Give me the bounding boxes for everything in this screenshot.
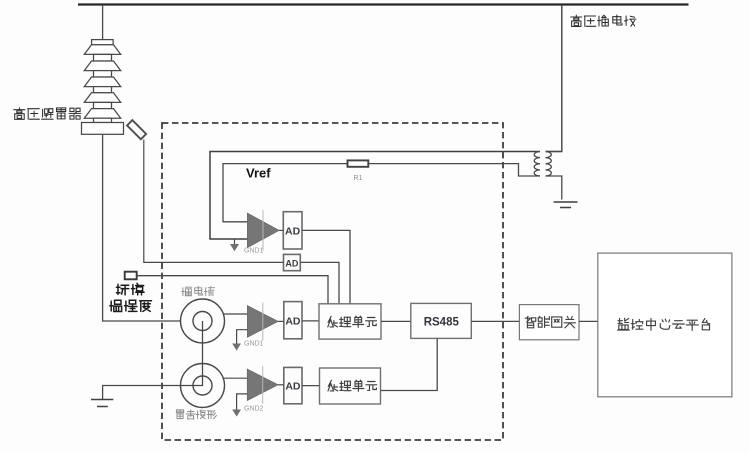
wire: op3 out to AD4	[278, 384, 284, 386]
label 高压输电线	[571, 15, 636, 27]
resistor R1	[348, 160, 369, 166]
lightning arrester ZnO stack	[82, 40, 124, 135]
processing unit 2 box	[320, 368, 381, 404]
AD converter box 1	[283, 212, 302, 249]
wire: arrester lead down through CT1	[103, 134, 181, 321]
label 雷击波形	[176, 410, 216, 420]
ground GND1 arrow (op-amp U2)	[237, 330, 248, 344]
label 处理单元 1	[328, 316, 377, 327]
wire: AD4 to processing unit 2	[302, 385, 320, 387]
wire: AD3 to processing unit 1	[302, 320, 319, 322]
label 监控中心云平台	[618, 318, 710, 330]
svg-text:Vref: Vref	[246, 166, 271, 181]
transformer T1	[534, 152, 562, 200]
wire: primary conductor through CT1/CT2 to ground	[103, 321, 203, 399]
wire: sensor to processing unit	[137, 276, 328, 304]
label 环境	[116, 283, 144, 295]
wire: CT1 to op-amp U2	[223, 313, 247, 315]
svg-text:AD: AD	[285, 381, 301, 393]
monitoring-center cloud platform box	[598, 253, 732, 397]
wire: drop from line to arrester	[102, 5, 104, 40]
label 漏电流	[182, 286, 215, 296]
label 温湿度	[110, 300, 152, 311]
wire: Vref outer loop (top rail to transformer primary top)	[210, 152, 540, 240]
CT2 lightning-waveform transformer	[181, 364, 225, 408]
wire: tilted sensor to AD2	[144, 140, 284, 263]
wire: processing unit 2 up into RS485	[381, 338, 438, 390]
op-amp U2	[247, 306, 278, 338]
env temp/humidity sensor box	[125, 272, 137, 280]
label 高压避雷器	[14, 108, 81, 120]
svg-text:GND1: GND1	[244, 248, 264, 255]
svg-text:AD: AD	[285, 226, 301, 238]
wire: processing unit 1 to RS485	[381, 320, 411, 322]
ground GND2 arrow (op-amp U3)	[237, 394, 248, 410]
wire: op2 out to AD3	[278, 320, 284, 322]
wire: op1 out to AD1	[279, 229, 283, 231]
label 处理单元 2	[328, 380, 377, 391]
RS485 box	[411, 303, 472, 338]
wire: RS485 to gateway	[471, 320, 519, 322]
wire: CT2 to op-amp U3	[223, 377, 247, 379]
wire: drop from line to transformer primary	[546, 5, 562, 152]
ground GND1 arrow (op-amp U1)	[234, 239, 236, 244]
svg-text:R1: R1	[354, 175, 363, 182]
svg-text:GND2: GND2	[244, 406, 264, 413]
processing unit 1 box	[319, 304, 381, 339]
svg-text:RS485: RS485	[424, 317, 460, 329]
op-amp U3	[247, 369, 278, 400]
power transmission line (top)	[78, 3, 689, 5]
ground (transformer secondary)	[554, 202, 578, 208]
smart gateway box	[519, 305, 579, 340]
dashed acquisition-unit box	[162, 123, 503, 440]
wire: gateway to cloud platform	[579, 320, 598, 322]
op-amp U1	[247, 213, 279, 247]
AD converter box 4	[284, 367, 302, 403]
label 智能网关	[525, 316, 575, 328]
svg-text:AD: AD	[285, 315, 301, 327]
ground (left, CT2)	[91, 400, 113, 407]
AD converter box 2	[284, 254, 301, 270]
tilted sensor on arrester	[127, 120, 146, 139]
AD converter box 3	[284, 302, 302, 339]
CT1 leakage-current transformer	[181, 299, 225, 343]
wire: AD1 out to processing unit	[302, 230, 350, 303]
svg-text:GND1: GND1	[244, 341, 264, 348]
wire: Vref inner loop / R1 rail to transformer primary bottom	[223, 164, 540, 222]
svg-text:AD: AD	[285, 258, 298, 268]
wire: AD2 out to processing unit	[300, 262, 339, 303]
